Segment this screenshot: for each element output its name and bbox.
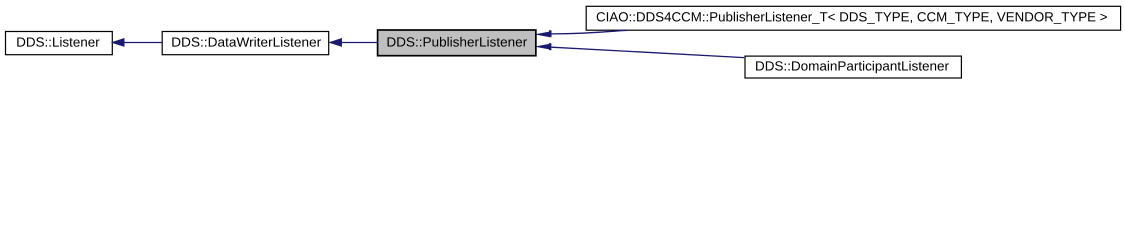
edge PublisherListener_T -> PublisherListener : arrowhead (triangle): [537, 32, 550, 37]
node DDS::Listener: [6, 32, 113, 55]
node DDS::DomainParticipantListener: [745, 56, 961, 78]
edge PublisherListener_T -> PublisherListener : arrowhead base bar: [549, 30, 552, 37]
edge PublisherListener -> DataWriterListener : arrowhead: [329, 39, 341, 47]
edge PublisherListener_T -> PublisherListener : wire: [552, 30, 628, 34]
edge DomainParticipantListener -> PublisherListener : wire: [551, 47, 744, 57]
edge DataWriterListener -> Listener : arrowhead: [112, 39, 124, 47]
node DDS::PublisherListener (current, grey): [378, 30, 536, 56]
edge DomainParticipantListener -> PublisherListener : arrowhead (triangle): [537, 44, 550, 49]
node DDS::DataWriterListener: [162, 32, 329, 55]
edge PublisherListener -> DataWriterListener : wire: [341, 42, 377, 44]
node CIAO::DDS4CCM::PublisherListener_T: [586, 6, 1120, 30]
edge DataWriterListener -> Listener : wire: [124, 42, 162, 44]
edge DomainParticipantListener -> PublisherListener : arrowhead base bar: [549, 43, 551, 50]
